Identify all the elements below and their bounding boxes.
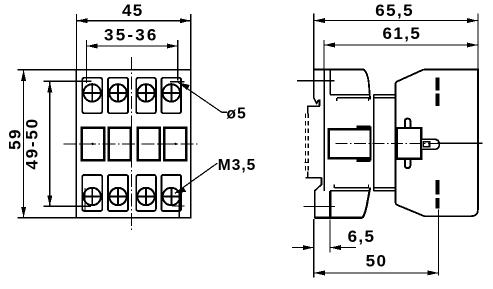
arrowheads dimension 50 <box>314 270 439 275</box>
terminal screw top 3 <box>137 84 154 101</box>
lower rail lines <box>330 188 395 191</box>
DIN clip bottom hook <box>315 178 322 218</box>
side view top slant edge <box>364 69 370 99</box>
vent slot top 1 <box>435 78 439 91</box>
rear block outline <box>395 69 478 216</box>
terminal screw bottom 1 <box>84 188 101 205</box>
side view bottom slant edge <box>363 188 371 218</box>
contact window 1 (bold) <box>82 128 105 161</box>
upper rail end ticks <box>337 98 369 101</box>
terminal block bottom row 3 <box>136 175 156 211</box>
DIN clip inner wall <box>323 69 325 190</box>
upper rail lines <box>330 95 395 98</box>
leader line for hole diameter label <box>178 83 227 113</box>
extension line 61,5 left <box>323 40 325 69</box>
extension line 65,5 left <box>313 14 315 70</box>
dimension line 59 <box>23 70 25 218</box>
horizontal centerline front view <box>64 143 199 145</box>
contact window 3 (bold) <box>138 128 160 161</box>
DIN clip upper edge and V hook <box>314 69 319 103</box>
centerline solid segment through lug <box>437 142 483 144</box>
extension line 6,5 and 50 left <box>313 219 315 277</box>
arrowheads dimension 6,5 (outside) <box>303 245 341 250</box>
svg-text:49-50: 49-50 <box>22 117 41 169</box>
extension lines dimension 35-36 <box>87 40 178 46</box>
arrowheads dimension 45 <box>76 18 190 23</box>
middle wall vertical <box>373 95 375 191</box>
svg-text:61,5: 61,5 <box>383 24 422 43</box>
terminal screw bottom 3 <box>137 188 154 205</box>
mounting hole mark top-right <box>170 40 184 82</box>
vent slot bottom 2 <box>435 198 439 208</box>
mounting centerline vertical <box>438 210 440 276</box>
coil terminal top bump <box>405 119 411 128</box>
vent slot top 2 <box>435 93 439 106</box>
contact window 4 (bold) <box>164 128 186 161</box>
dimension line 65,5 <box>314 20 478 22</box>
hole projection line bottom <box>304 206 335 208</box>
terminal block bottom row 1 <box>82 175 102 211</box>
coil body (bold) <box>329 129 371 158</box>
arrowheads dimension 59 <box>21 70 26 218</box>
extension line right side dims <box>477 14 479 70</box>
terminal screw top 1 <box>84 84 101 101</box>
leader line for screw thread label <box>175 163 217 193</box>
side view housing top edge <box>313 68 363 70</box>
hole projection line top <box>297 80 335 82</box>
vent slot bottom 1 <box>435 180 439 194</box>
extension line 6,5 right <box>329 220 331 253</box>
terminal block bottom row 2 <box>108 175 128 211</box>
extension lines dimension 59 <box>18 70 77 218</box>
svg-text:6,5: 6,5 <box>348 227 376 246</box>
terminal block top row 3 <box>136 78 156 114</box>
vertical centerline front view <box>131 57 133 231</box>
leader arrowhead o5 <box>178 83 190 91</box>
terminal block top row 2 <box>108 78 128 114</box>
svg-text:35-36: 35-36 <box>104 26 158 45</box>
side view housing bottom edge <box>314 217 362 219</box>
leader arrowhead M3,5 <box>175 187 186 194</box>
dimension line 61,5 <box>324 44 478 46</box>
dimension line 45 <box>76 20 190 22</box>
DIN rail hidden dashed line right <box>307 114 309 172</box>
dimension line 49-50 <box>49 81 51 206</box>
svg-text:65,5: 65,5 <box>375 1 414 20</box>
svg-text:ø5: ø5 <box>227 105 248 122</box>
dimension line 35-36 <box>87 45 178 47</box>
contact window 2 (bold) <box>109 128 131 161</box>
terminal screw top 4 <box>163 84 180 101</box>
front view body outline <box>76 70 191 218</box>
terminal block bottom row 4 <box>161 175 181 211</box>
terminal screw top 2 <box>109 84 126 101</box>
coil lips <box>358 127 371 161</box>
contact center dot right <box>174 143 176 145</box>
terminal block top row 1 <box>82 78 102 114</box>
coil terminal block <box>397 128 421 159</box>
arrowheads dimension 65,5 <box>314 18 478 23</box>
arrowheads dimension 49-50 <box>47 81 52 206</box>
DIN rail flange bottom <box>306 172 322 178</box>
horizontal centerline side view <box>336 142 437 144</box>
terminal screw bottom 4 <box>163 188 180 205</box>
DIN rail hidden dashed line left <box>304 114 306 172</box>
spade lug <box>421 139 439 149</box>
coil terminal bottom bump <box>405 159 411 168</box>
mounting hole mark bottom-left <box>44 188 92 212</box>
dimension line 50 <box>314 272 439 274</box>
DIN rail flange tick <box>304 161 308 163</box>
mounting hole mark top-left <box>44 40 92 83</box>
terminal block top row 4 <box>161 78 181 114</box>
arrowheads dimension 61,5 <box>324 43 478 48</box>
DIN rail flange top <box>308 106 320 113</box>
svg-text:50: 50 <box>366 252 388 271</box>
svg-text:45: 45 <box>122 1 144 20</box>
svg-text:M3,5: M3,5 <box>218 157 256 174</box>
terminal screw bottom 2 <box>109 188 126 205</box>
contact center dot left <box>92 143 94 145</box>
dimension line 6,5 <box>292 247 356 249</box>
extension lines dimension 45 <box>76 14 190 70</box>
side view front edge bottom segment <box>329 191 331 218</box>
side view front edge top segment <box>329 69 331 94</box>
lower rail end ticks <box>334 185 368 188</box>
mounting hole mark bottom-right <box>172 192 184 217</box>
arrowheads dimension 35-36 <box>87 44 178 49</box>
DIN clip upper stub <box>318 99 320 106</box>
